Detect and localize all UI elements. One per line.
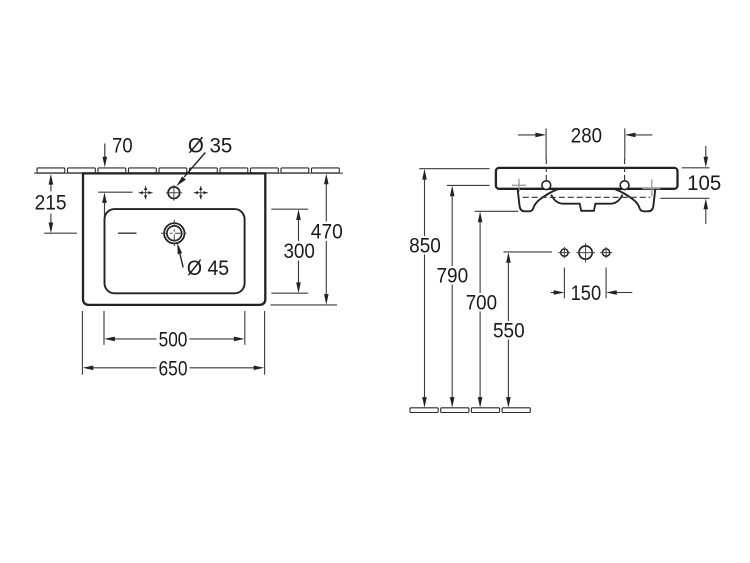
optional tap hole mark left	[139, 186, 153, 199]
drain hole inner	[167, 226, 182, 241]
mounting hole left	[542, 181, 551, 190]
dim 470	[324, 174, 329, 185]
svg-text:Ø 35: Ø 35	[188, 134, 233, 157]
optional tap hole mark right	[194, 186, 208, 199]
fixing hole right	[602, 249, 609, 256]
dim 215	[50, 183, 52, 192]
svg-text:850: 850	[409, 234, 441, 257]
drain hole outer	[164, 223, 184, 243]
dim 700	[478, 212, 483, 223]
dim 550	[506, 252, 511, 263]
basin bowl (front view)	[105, 209, 245, 293]
leader line for tap hole label	[184, 153, 205, 177]
dim 105	[705, 146, 707, 157]
svg-text:550: 550	[493, 319, 525, 342]
svg-text:280: 280	[571, 124, 602, 147]
dim 790	[450, 186, 455, 197]
dim 150 extension lines	[563, 268, 565, 299]
dim 650 extension lines	[81, 311, 83, 375]
dim 70 extension line	[98, 191, 132, 193]
svg-text:215: 215	[35, 192, 67, 215]
fixing hole centre	[579, 246, 592, 259]
bowl profile right (side view)	[615, 189, 655, 211]
svg-text:Ø 45: Ø 45	[187, 257, 229, 280]
dim 150	[551, 292, 554, 294]
bowl profile left (side view)	[518, 189, 558, 211]
dim 300 extensions	[271, 208, 308, 210]
grey centre cross left	[512, 184, 526, 186]
dim 500 extension lines	[103, 311, 105, 345]
dim 105 extensions	[682, 167, 710, 169]
svg-text:150: 150	[571, 282, 602, 305]
dim 850 extension	[419, 168, 489, 170]
fixing hole left	[561, 249, 568, 256]
syphon cover profile	[551, 195, 622, 211]
dim 280 extension lines	[545, 128, 547, 159]
svg-text:500: 500	[159, 328, 188, 351]
wall tile strips (front view)	[37, 168, 339, 173]
svg-text:790: 790	[436, 264, 468, 287]
svg-text:300: 300	[283, 240, 315, 263]
dim 470 bottom extension	[271, 304, 338, 306]
mounting hole centrelines dashed	[545, 159, 547, 182]
dim 650	[83, 366, 94, 371]
dim 70 arrows	[104, 144, 106, 159]
dim 790 extension	[447, 184, 490, 186]
hidden line dashed (side view)	[523, 196, 651, 198]
floor tile strips	[410, 408, 530, 413]
drain crosshair (dashed)	[161, 232, 188, 234]
grey centre cross right	[642, 188, 660, 190]
dim 700 extension	[475, 210, 519, 212]
svg-text:470: 470	[311, 220, 343, 243]
faucet hole	[168, 187, 180, 199]
svg-text:105: 105	[687, 172, 721, 195]
dim 300	[296, 209, 301, 220]
svg-text:650: 650	[159, 357, 188, 380]
faucet hole crosshair	[166, 192, 182, 194]
basin outer outline (front view)	[83, 173, 265, 305]
dim 550 extension	[504, 251, 553, 253]
svg-text:70: 70	[112, 134, 133, 157]
dim 500	[104, 337, 115, 342]
rim side view	[496, 168, 678, 189]
leader arrow for drain label	[180, 254, 183, 268]
svg-text:700: 700	[466, 291, 497, 314]
dim 215 extension line	[44, 232, 77, 234]
wall line (front view)	[34, 172, 343, 174]
mounting hole right	[620, 181, 629, 190]
overflow line	[118, 232, 137, 234]
dim 850	[422, 169, 427, 180]
